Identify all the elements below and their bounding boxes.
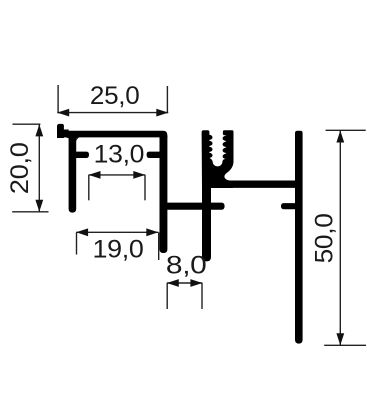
profile center stem xyxy=(202,185,211,261)
dim 19,0 line xyxy=(76,231,158,233)
dim 50,0 tick bottom xyxy=(324,344,366,346)
dim 20,0 tick top xyxy=(13,123,41,125)
dim 20,0 arrowhead top xyxy=(35,124,43,136)
dim 20,0 line xyxy=(38,124,40,211)
dim 19,0 arrowhead right xyxy=(146,228,158,236)
profile top-left glazing lip xyxy=(57,124,64,138)
profile left inner stub xyxy=(76,152,89,158)
dim 8,0 arrowhead left xyxy=(167,279,179,287)
dim 25,0 line xyxy=(57,112,168,114)
profile right wall xyxy=(295,131,303,344)
profile right wall stub xyxy=(281,203,296,209)
dim 13,0 line xyxy=(89,174,146,176)
dim 19,0 extension line right xyxy=(158,232,160,260)
profile top flange xyxy=(57,131,167,138)
dim 19,0 extension line left xyxy=(76,232,78,254)
dim 50,0 tick top xyxy=(326,129,366,131)
dim 8,0 arrowhead right xyxy=(190,279,202,287)
svg-text:50,0: 50,0 xyxy=(311,213,339,263)
dim 50,0 arrowhead bottom xyxy=(336,333,344,345)
dim 8,0 line xyxy=(167,282,202,284)
svg-text:8,0: 8,0 xyxy=(166,252,207,280)
svg-text:25,0: 25,0 xyxy=(90,82,140,110)
dim 20,0 arrowhead bottom xyxy=(35,200,43,212)
profile top-left wedge xyxy=(57,130,69,139)
dim 50,0 arrowhead top xyxy=(336,131,344,143)
profile left wall xyxy=(69,136,77,213)
profile middle wall xyxy=(160,136,168,253)
dim 8,0 extension line left xyxy=(166,283,168,309)
dim 19,0 arrowhead left xyxy=(76,228,88,236)
profile right inner stub xyxy=(147,152,160,158)
profile bottom crossbar xyxy=(160,203,225,210)
dim 25,0 extension line right xyxy=(166,86,168,113)
dim 50,0 line xyxy=(339,131,341,346)
svg-text:19,0: 19,0 xyxy=(93,236,144,264)
dim 25,0 arrowhead left xyxy=(57,109,69,117)
dim 13,0 arrowhead left xyxy=(89,171,101,179)
svg-text:20,0: 20,0 xyxy=(6,142,34,194)
dim 13,0 extension line right xyxy=(144,175,146,200)
profile web xyxy=(211,181,296,188)
dim 13,0 arrowhead right xyxy=(133,171,145,179)
dim 25,0 arrowhead right xyxy=(156,109,168,117)
dim 25,0 extension line left xyxy=(57,85,59,113)
dim 8,0 extension line right xyxy=(201,283,203,309)
profile left wall fillet xyxy=(76,137,80,142)
dim 13,0 extension line left xyxy=(88,175,90,200)
dim 20,0 tick bottom xyxy=(12,211,48,213)
profile serrated clip xyxy=(202,130,234,188)
svg-text:13,0: 13,0 xyxy=(94,140,145,168)
